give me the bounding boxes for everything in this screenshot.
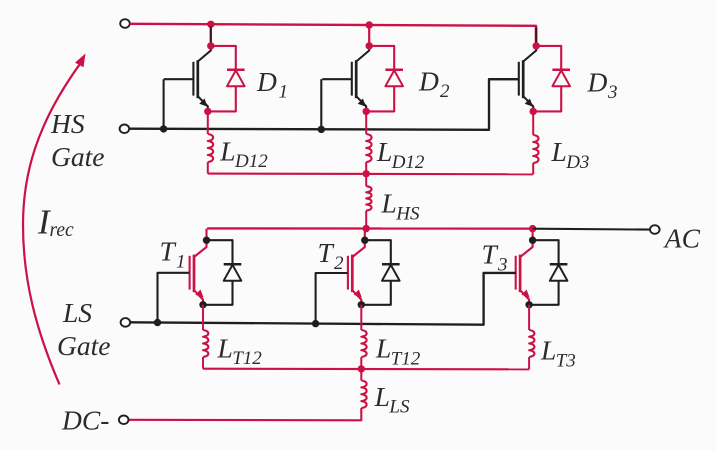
wire HS coupling bus <box>208 173 533 176</box>
wire T2 emitter drop <box>360 305 362 330</box>
node AC rail end <box>529 225 536 232</box>
wire AC lead <box>533 228 651 231</box>
label L_LS <box>374 381 410 418</box>
wire LS gate branch 1 <box>158 273 190 323</box>
wire LS gate bus <box>130 273 516 325</box>
svg-text:L: L <box>376 136 392 167</box>
transistor T1 <box>190 229 207 305</box>
label L_D3 <box>551 136 590 173</box>
node T2 collector <box>361 237 368 244</box>
svg-text:1: 1 <box>279 82 289 103</box>
node HS gate branch 2 <box>318 126 325 133</box>
wire L_HS head <box>365 174 367 186</box>
node T2 emitter <box>358 301 365 308</box>
inductor L_HS <box>366 186 371 210</box>
wire emitter drop 1 <box>207 111 209 134</box>
terminal DC- <box>119 416 129 425</box>
node emitter 1 <box>204 108 211 115</box>
node L_HS top junction <box>363 170 370 177</box>
node emitter 3 <box>530 108 537 115</box>
svg-text:D: D <box>256 66 277 97</box>
svg-text:D: D <box>418 66 439 97</box>
transistor top IGBT 3 <box>489 26 536 112</box>
svg-text:L: L <box>375 333 391 364</box>
inductor L_T3 <box>529 330 534 357</box>
svg-text:DC-: DC- <box>61 405 109 436</box>
label L_T12 b <box>375 333 421 370</box>
node top-rail junction 1 <box>207 21 214 28</box>
diode D3 <box>552 70 570 86</box>
node top-rail junction 2 <box>366 21 373 28</box>
label L_D12 a <box>219 135 268 172</box>
terminal LS gate <box>121 318 131 327</box>
svg-text:L: L <box>381 188 397 219</box>
node collector 3 <box>533 42 540 49</box>
transistor top IGBT 2 <box>322 25 369 111</box>
label D3 <box>587 66 618 103</box>
svg-text:T3: T3 <box>556 350 576 371</box>
wire diode D2 branch <box>366 46 394 112</box>
svg-text:HS: HS <box>395 203 420 224</box>
wire LS gate branch 2 <box>316 273 348 324</box>
label L_HS <box>381 188 421 225</box>
label L_T12 a <box>217 332 263 369</box>
inductor L_T12 b <box>361 330 366 357</box>
label L_D12 b <box>376 136 425 173</box>
label T2 <box>318 237 345 274</box>
wire T2 diode branch <box>361 240 391 305</box>
svg-text:2: 2 <box>440 81 450 102</box>
diode T3 antiparallel <box>550 264 568 280</box>
svg-text:T: T <box>160 235 177 266</box>
wire L_D12 b tail <box>365 162 367 174</box>
wire T1 emitter drop <box>202 305 204 330</box>
inductor L_D12 b <box>366 134 371 162</box>
inductor L_D12 a <box>208 134 213 162</box>
label LS Gate <box>57 297 110 361</box>
wire collector stub dark 3 <box>535 28 537 45</box>
svg-text:L: L <box>374 381 390 412</box>
wire top DC+ rail <box>130 24 536 46</box>
node collector 2 <box>366 42 373 49</box>
svg-text:T12: T12 <box>391 349 421 370</box>
svg-text:LS: LS <box>62 297 92 328</box>
node T1 collector <box>203 237 210 244</box>
wire diode D1 branch <box>208 46 236 112</box>
node T3 emitter <box>525 301 532 308</box>
transistor T2 <box>348 229 365 305</box>
label HS Gate <box>50 108 104 172</box>
arrow I_rec current path <box>23 54 86 385</box>
wire L_LS head <box>360 369 362 381</box>
wire emitter drop 2 <box>365 111 367 134</box>
node T1 emitter <box>199 301 206 308</box>
wire L_T12 a tail <box>202 357 204 369</box>
svg-text:T12: T12 <box>232 348 262 369</box>
node LS gate branch 1 <box>154 319 161 326</box>
diode T2 antiparallel <box>382 264 400 280</box>
wire T3 diode branch <box>529 240 559 305</box>
svg-text:D3: D3 <box>565 152 589 173</box>
svg-text:T: T <box>482 239 499 270</box>
transistor top IGBT 1 <box>164 24 211 111</box>
label T1 <box>160 235 186 272</box>
node L_LS top junction <box>358 365 365 372</box>
wire L_HS tail <box>365 211 367 229</box>
svg-text:L: L <box>551 136 567 167</box>
wire HS gate bus <box>129 79 519 130</box>
node LS gate branch 2 <box>312 320 319 327</box>
wire L_LS tail <box>128 408 361 420</box>
inductor L_LS <box>361 381 366 409</box>
svg-text:1: 1 <box>176 251 186 272</box>
svg-text:HS: HS <box>50 108 85 139</box>
wire LS coupling bus <box>203 368 529 371</box>
wire T3 emitter drop <box>528 305 530 330</box>
diode D1 <box>227 70 245 86</box>
inductor L_T12 a <box>203 330 208 357</box>
svg-text:L: L <box>219 135 235 166</box>
node T3 collector <box>529 237 536 244</box>
svg-text:LS: LS <box>388 397 410 418</box>
wire emitter drop 3 <box>532 111 534 135</box>
svg-text:L: L <box>540 335 556 366</box>
svg-text:Gate: Gate <box>51 141 104 172</box>
label I_rec <box>37 202 74 241</box>
svg-text:T: T <box>318 237 335 268</box>
svg-text:3: 3 <box>607 82 618 103</box>
diode D2 <box>385 70 403 86</box>
terminal DC+ (top-left) <box>120 19 130 28</box>
label DC- <box>61 405 109 436</box>
terminal HS gate <box>120 125 130 134</box>
svg-text:rec: rec <box>50 220 75 241</box>
svg-text:2: 2 <box>334 253 344 274</box>
label D2 <box>418 66 450 103</box>
diode T1 antiparallel <box>224 264 242 280</box>
node collector 1 <box>207 42 214 49</box>
label T3 <box>482 239 508 276</box>
node emitter 2 <box>363 108 370 115</box>
svg-text:D: D <box>587 66 608 97</box>
wire L_T3 tail <box>528 357 530 369</box>
node HS gate branch 1 <box>160 125 167 132</box>
wire HS gate branch 2 <box>320 79 322 129</box>
node L_HS bottom junction <box>363 225 370 232</box>
terminal AC <box>650 225 660 234</box>
svg-text:D12: D12 <box>391 152 425 173</box>
wire T1 diode branch <box>203 240 233 305</box>
wire L_D12 a tail <box>207 162 209 174</box>
wire collector stub dark 1 <box>210 27 212 45</box>
wire L_D3 tail <box>532 163 534 174</box>
wire AC phase rail <box>207 227 532 230</box>
label L_T3 <box>540 335 576 372</box>
svg-text:Gate: Gate <box>57 330 110 361</box>
wire diode D3 branch <box>533 46 561 112</box>
transistor T3 <box>516 229 533 305</box>
wire HS gate branch 1 <box>163 79 165 129</box>
label D1 <box>256 66 288 103</box>
label AC <box>663 223 701 254</box>
svg-text:AC: AC <box>663 223 701 254</box>
inductor L_D3 <box>533 135 538 163</box>
svg-text:D12: D12 <box>234 151 268 172</box>
wire L_T12 b tail <box>360 357 362 369</box>
svg-text:L: L <box>217 332 233 363</box>
